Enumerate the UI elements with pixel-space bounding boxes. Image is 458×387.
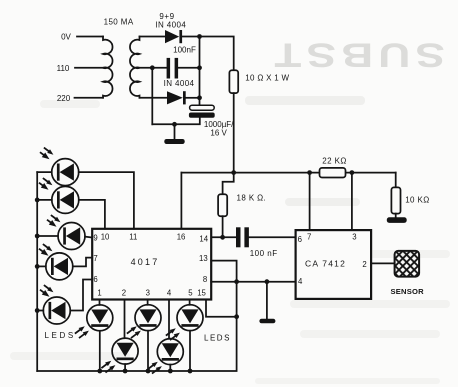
transformer T1 secondary winding 9+9: [130, 37, 140, 98]
rays LD3: [48, 216, 61, 227]
svg-text:7: 7: [307, 233, 311, 242]
wire +V rail vertical: [199, 37, 201, 106]
svg-text:4: 4: [298, 277, 303, 286]
svg-text:22 KΩ: 22 KΩ: [322, 156, 346, 165]
wire D2 cathode to +V node: [186, 97, 200, 99]
svg-text:3: 3: [352, 233, 356, 242]
IC U2 CA7412 box: [296, 230, 372, 299]
sensor X1: [395, 251, 420, 277]
svg-text:10 Ω X 1 W: 10 Ω X 1 W: [245, 74, 289, 83]
rays LD4: [40, 245, 53, 256]
rays LD6: [76, 326, 89, 337]
wire +V to resistor R1: [200, 37, 234, 71]
node pin15 bus junction: [234, 314, 239, 319]
wire 0V to primary: [77, 36, 103, 38]
svg-text:9: 9: [93, 234, 97, 243]
svg-text:110: 110: [57, 64, 70, 73]
wire pin16 riser: [180, 173, 182, 229]
wire 220 to primary: [75, 97, 104, 99]
rays LD10: [149, 362, 162, 373]
IC U1 4017 box: [92, 229, 211, 300]
LED LD2: [35, 186, 105, 228]
ground mid: [259, 282, 275, 324]
resistor R2 18K: [218, 194, 227, 216]
capacitor C2 1000uF/16V electrolytic: [189, 105, 215, 118]
svg-text:0V: 0V: [61, 33, 71, 42]
svg-text:LEDS: LEDS: [204, 334, 231, 343]
svg-text:13: 13: [199, 254, 208, 263]
svg-text:2: 2: [362, 260, 366, 269]
svg-text:8: 8: [203, 275, 207, 284]
node D2 output: [197, 95, 202, 100]
svg-text:CA 7412: CA 7412: [305, 258, 346, 268]
svg-text:9+9: 9+9: [159, 12, 174, 21]
svg-text:10: 10: [101, 233, 110, 242]
svg-text:16 V: 16 V: [210, 129, 227, 138]
svg-text:1: 1: [97, 288, 101, 297]
resistor R4 10K: [391, 187, 400, 213]
node D1 output: [197, 34, 202, 39]
wire 4017 pin14 to C3: [211, 236, 236, 238]
svg-text:4: 4: [167, 288, 172, 297]
wire secondary top to diode D1: [140, 36, 166, 38]
resistor R3 22K with rail: [320, 168, 346, 178]
svg-text:3: 3: [146, 288, 150, 297]
svg-text:LEDS: LEDS: [45, 331, 76, 340]
node center tap junction: [150, 65, 155, 70]
node C1 output: [197, 65, 202, 70]
wire secondary center tap: [140, 67, 167, 69]
rays LD1: [41, 148, 54, 159]
svg-text:100nF: 100nF: [173, 46, 196, 55]
LED LD10 pin4: [157, 300, 183, 374]
svg-text:2: 2: [122, 288, 126, 297]
wire secondary bottom to diode D2: [140, 97, 168, 99]
svg-text:16: 16: [177, 233, 186, 242]
wire 4017 pin13 to ground line: [211, 261, 236, 282]
capacitor C1 100nF: [167, 58, 179, 79]
wire R2 to pin14 line: [222, 216, 224, 237]
svg-text:11: 11: [129, 233, 137, 242]
wire 4017 pin8 to CA7412 pin4: [211, 281, 295, 283]
wire C2 negative to ground rail: [152, 118, 200, 125]
wire 110 to primary tap: [75, 67, 103, 69]
wire C1 to +V rail: [178, 67, 199, 69]
svg-text:220: 220: [57, 94, 71, 103]
LED LD8 pin5: [177, 300, 203, 374]
wire ground bus vertical: [37, 282, 236, 371]
node 22K left pin7: [307, 170, 312, 175]
svg-text:4017: 4017: [131, 257, 160, 267]
transformer T1 primary winding: [103, 37, 113, 98]
wire center tap down: [151, 68, 153, 125]
node ground rail junction: [172, 122, 177, 127]
faint show-through lines: [10, 96, 450, 384]
svg-text:6: 6: [93, 275, 97, 284]
rays LD8: [167, 328, 180, 339]
svg-text:100 nF: 100 nF: [250, 249, 278, 258]
node 22K right pin3: [350, 170, 355, 175]
resistor R1 10 ohm 1W: [229, 70, 238, 93]
LED LD3: [35, 223, 92, 250]
LED LD4: [35, 253, 92, 280]
rays LD2: [40, 179, 53, 190]
wire left cathode bus: [36, 172, 38, 371]
wire CA7412 pin7 riser: [309, 173, 311, 231]
ground PSU: [164, 124, 184, 144]
svg-text:6: 6: [298, 235, 302, 244]
wire CA7412 pin3 riser: [351, 173, 353, 231]
node ground stub junction: [265, 279, 270, 284]
rays LD5: [41, 286, 54, 297]
LED LD6 pin1: [87, 300, 113, 374]
diode D1 IN4004 top: [165, 30, 182, 43]
rays LD9: [102, 361, 115, 372]
wire D1 cathode to +V node: [182, 36, 200, 38]
wire C3 to CA7412 pin6: [249, 236, 296, 238]
svg-text:10 KΩ: 10 KΩ: [405, 196, 429, 205]
node pin13 ground junction: [234, 279, 239, 284]
capacitor C3 100nF: [236, 227, 249, 247]
diode D2 IN4004 bottom: [167, 91, 186, 104]
ground 10K: [387, 214, 407, 223]
svg-text:SENSOR: SENSOR: [391, 287, 425, 296]
wire +9V rail horizontal: [181, 172, 395, 174]
node R1 rail junction: [231, 170, 236, 175]
rays LD7: [128, 326, 141, 337]
svg-text:IN 4004: IN 4004: [155, 21, 186, 30]
LED LD9 pin2: [112, 300, 138, 374]
svg-text:5: 5: [188, 288, 193, 297]
wire R1 to +9V rail: [233, 93, 235, 173]
wire CA7412 pin2 to sensor: [371, 262, 395, 264]
LED LD7 pin3: [135, 300, 161, 374]
LED LD1: [37, 159, 134, 229]
svg-text:14: 14: [199, 234, 208, 243]
svg-text:IN 4004: IN 4004: [164, 79, 195, 88]
svg-text:150 MA: 150 MA: [104, 17, 134, 26]
svg-text:15: 15: [197, 288, 206, 297]
wire 18K from rail: [223, 173, 234, 195]
svg-text:7: 7: [93, 254, 97, 263]
svg-text:18 K Ω.: 18 K Ω.: [237, 194, 267, 203]
svg-text:SUBST: SUBST: [269, 36, 445, 74]
LED LD5: [35, 280, 92, 325]
wire 4017 pin15 to ground bus: [206, 300, 237, 317]
wire rail to 10K: [395, 173, 397, 188]
node R2 pin14 junction: [220, 235, 225, 240]
